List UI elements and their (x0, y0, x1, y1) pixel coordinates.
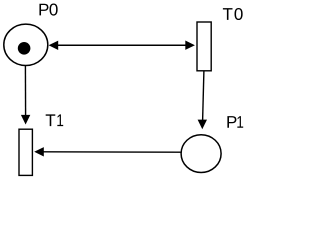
wire P1-T1 shaft (43, 151, 181, 153)
arrowhead into P0 (49, 41, 59, 50)
place P0 (4, 24, 48, 65)
label T1 (46, 114, 64, 126)
arrowhead into T1 top (21, 115, 30, 125)
transition T1 (19, 129, 32, 175)
arrowhead into P1 top (198, 120, 207, 130)
token in P0 (18, 42, 31, 55)
wire P0-T1 shaft (24, 65, 26, 116)
place P1 (181, 135, 221, 173)
label T0 (223, 8, 243, 20)
arrowhead into T1 right (34, 147, 44, 156)
wire T0-P1 shaft (203, 71, 204, 121)
transition T0 (197, 22, 211, 71)
label P1 (227, 116, 243, 128)
arrowhead into T0 (185, 41, 195, 50)
label P0 (39, 4, 57, 16)
wire P0-T0 shaft (56, 44, 186, 46)
